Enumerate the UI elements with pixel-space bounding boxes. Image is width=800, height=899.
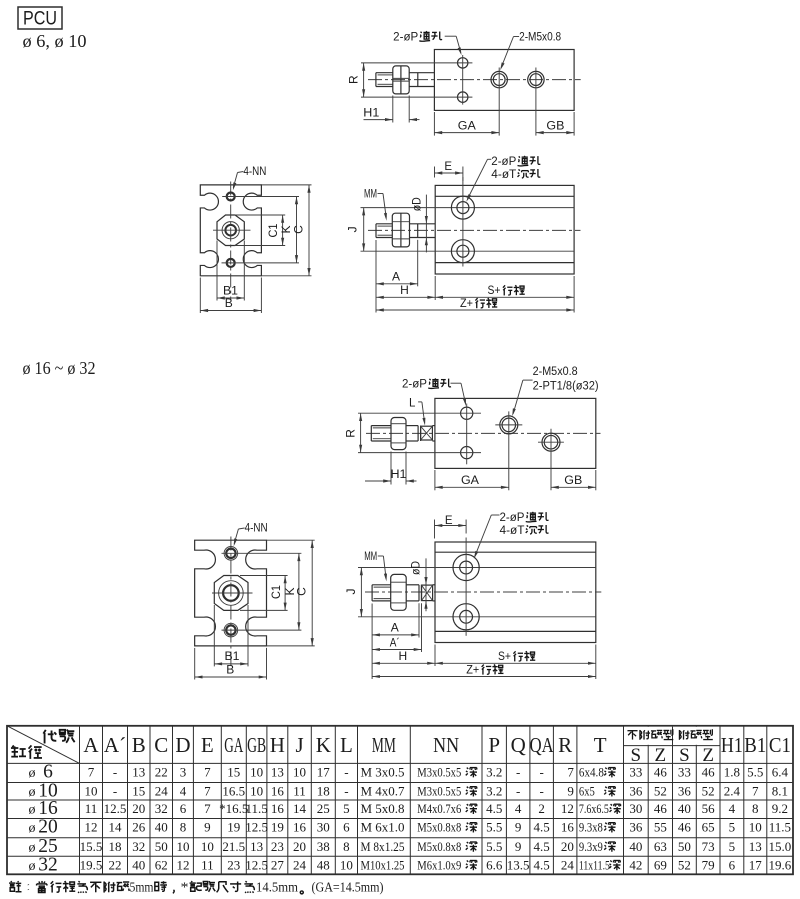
svg-text:22: 22: [109, 858, 122, 873]
svg-text:30: 30: [629, 801, 642, 816]
svg-text:50: 50: [678, 839, 691, 854]
dimension H: [434, 276, 436, 300]
svg-text:(GA=14.5mm): (GA=14.5mm): [312, 880, 384, 895]
svg-text:D: D: [175, 733, 190, 757]
svg-text:B1: B1: [225, 651, 240, 663]
svg-text:4.5: 4.5: [486, 801, 502, 816]
svg-text:M 5x0.8: M 5x0.8: [361, 801, 405, 816]
svg-text:5.5: 5.5: [486, 820, 502, 835]
svg-text:2.4: 2.4: [724, 784, 741, 799]
dimension B: [194, 648, 196, 680]
svg-text:9: 9: [515, 820, 522, 835]
svg-text:-: -: [113, 784, 117, 799]
dimension C: [267, 539, 315, 541]
svg-text:A´: A´: [104, 733, 126, 757]
cylinder body (side view small): [435, 185, 574, 274]
svg-text:ø: ø: [29, 766, 36, 781]
svg-text:20: 20: [38, 817, 58, 838]
svg-text:40: 40: [678, 801, 691, 816]
svg-text:2-øP: 2-øP: [393, 32, 418, 44]
svg-text:36: 36: [678, 784, 692, 799]
svg-text:36: 36: [629, 820, 643, 835]
svg-text:10: 10: [176, 839, 189, 854]
svg-text:11: 11: [85, 801, 98, 816]
svg-text:11: 11: [201, 858, 214, 873]
svg-text:19: 19: [271, 820, 284, 835]
svg-text:QA: QA: [530, 733, 555, 757]
counterbored mounting holes (side view large): [453, 554, 479, 580]
lower hole center line / J extension: [358, 616, 596, 618]
svg-text:9: 9: [204, 820, 211, 835]
svg-text:Q: Q: [511, 733, 526, 757]
svg-text:2-øP: 2-øP: [402, 379, 427, 391]
svg-text:M5x0.8x8: M5x0.8x8: [417, 839, 461, 854]
svg-text:6: 6: [729, 858, 736, 873]
svg-text:J: J: [295, 733, 303, 757]
svg-text:73: 73: [702, 839, 715, 854]
center line: [366, 432, 601, 434]
body groove line: [435, 262, 574, 264]
svg-text:3.2: 3.2: [486, 765, 502, 780]
svg-text:4.5: 4.5: [534, 839, 550, 854]
svg-text:5: 5: [729, 820, 736, 835]
svg-text:7: 7: [567, 765, 574, 780]
svg-text:5: 5: [343, 801, 350, 816]
counterbored mounting holes (side view small): [451, 196, 474, 219]
svg-text:M3x0.5x5: M3x0.5x5: [417, 765, 461, 780]
svg-text:7: 7: [88, 765, 95, 780]
dimension GB: [536, 132, 574, 134]
body plate outline with sensor notches (front view large): [195, 540, 267, 646]
dimension H: [434, 645, 436, 667]
dimension C1: [235, 214, 286, 216]
dimension H1: [390, 452, 392, 485]
svg-text:GB: GB: [546, 120, 564, 132]
svg-text:M 3x0.5: M 3x0.5: [361, 765, 405, 780]
svg-text:-: -: [539, 784, 543, 799]
svg-text:4.5: 4.5: [534, 820, 550, 835]
svg-text:14: 14: [293, 801, 307, 816]
svg-text:ø: ø: [29, 785, 36, 800]
svg-text:2: 2: [538, 801, 545, 816]
cylinder body (side view large): [435, 542, 596, 643]
table header diagonal cell: [7, 726, 80, 764]
svg-text:Z+: Z+: [466, 664, 479, 676]
rod outer circle: [222, 222, 239, 239]
svg-text:T: T: [594, 733, 607, 757]
svg-text:E: E: [444, 161, 452, 173]
svg-text:E: E: [201, 733, 214, 757]
svg-text:GA: GA: [461, 475, 479, 487]
staggered ports M5 / PT1/8: [500, 416, 518, 434]
svg-text:2-øP: 2-øP: [500, 512, 525, 524]
svg-text:11.5: 11.5: [245, 801, 267, 816]
svg-text:5mm: 5mm: [130, 880, 154, 895]
piston rod with nuts (top view small): [375, 73, 377, 87]
svg-text:11x11.5: 11x11.5: [579, 858, 610, 873]
svg-text:S: S: [631, 745, 642, 766]
svg-text:16: 16: [271, 801, 285, 816]
svg-text:M 4x0.7: M 4x0.7: [361, 784, 406, 799]
svg-text:22: 22: [155, 765, 168, 780]
svg-text:33: 33: [629, 765, 642, 780]
svg-text:7: 7: [204, 801, 211, 816]
svg-text:4-NN: 4-NN: [243, 166, 266, 178]
svg-text:10: 10: [250, 765, 263, 780]
svg-text:*: *: [181, 880, 189, 895]
svg-text:B: B: [225, 296, 233, 310]
body groove line: [435, 195, 574, 197]
svg-text:8: 8: [343, 839, 350, 854]
svg-text:8: 8: [180, 820, 187, 835]
svg-text:14.5mm: 14.5mm: [256, 880, 298, 895]
svg-text:13.5: 13.5: [507, 858, 530, 873]
dimension J: [360, 568, 362, 617]
svg-text:R: R: [343, 429, 357, 438]
svg-text:27: 27: [271, 858, 285, 873]
svg-text:3.2: 3.2: [486, 784, 502, 799]
svg-text:15: 15: [132, 784, 145, 799]
svg-text:24: 24: [293, 858, 307, 873]
rod thread circle: [225, 225, 236, 236]
cylinder body (top view small): [434, 50, 574, 111]
svg-text:52: 52: [654, 784, 667, 799]
dimension S+stroke: [573, 276, 575, 313]
body groove line: [435, 630, 596, 632]
svg-text:GB: GB: [247, 733, 266, 757]
svg-text:9: 9: [567, 784, 574, 799]
svg-text:48: 48: [317, 858, 330, 873]
svg-text:ø: ø: [29, 821, 36, 836]
svg-text:8.1: 8.1: [772, 784, 788, 799]
svg-text:ø: ø: [29, 841, 36, 856]
svg-text:S+: S+: [488, 285, 501, 297]
svg-text:36: 36: [629, 784, 643, 799]
svg-text:5.5: 5.5: [747, 765, 763, 780]
svg-text:63: 63: [654, 839, 667, 854]
svg-text:16.5: 16.5: [222, 784, 245, 799]
svg-text:GA: GA: [458, 120, 476, 132]
svg-text:H1: H1: [721, 733, 743, 757]
dimension B1: [216, 241, 218, 301]
footnote: [9, 881, 21, 892]
svg-text:19: 19: [227, 820, 240, 835]
table grid: [7, 726, 793, 875]
svg-text:Z+: Z+: [460, 298, 473, 310]
svg-text:A´: A´: [390, 637, 400, 649]
svg-text:C1: C1: [769, 733, 791, 757]
svg-text:MM: MM: [364, 189, 377, 201]
svg-text:M5x0.8x8: M5x0.8x8: [417, 820, 461, 835]
svg-text:-: -: [539, 765, 543, 780]
svg-text:P: P: [488, 733, 500, 757]
svg-text:13: 13: [271, 765, 284, 780]
svg-text:-: -: [113, 765, 117, 780]
svg-text:40: 40: [132, 858, 145, 873]
svg-text:MM: MM: [364, 551, 377, 563]
svg-text:H: H: [400, 283, 409, 297]
dimension E: [434, 520, 436, 539]
svg-text:L: L: [340, 733, 353, 757]
svg-text:5.5: 5.5: [486, 839, 502, 854]
dimension Z+stroke: [376, 309, 574, 311]
svg-text:20: 20: [293, 839, 306, 854]
svg-text:7: 7: [204, 765, 211, 780]
svg-text:NN: NN: [433, 733, 459, 757]
dimension R: [363, 63, 365, 97]
body plate outline with sensor notches (front view small): [200, 185, 261, 276]
svg-text:6x5: 6x5: [579, 784, 595, 799]
svg-text:13: 13: [132, 765, 145, 780]
svg-text:K: K: [316, 733, 331, 757]
svg-text:1.8: 1.8: [724, 765, 740, 780]
svg-text:38: 38: [317, 839, 330, 854]
svg-text:H1: H1: [363, 108, 379, 120]
svg-text:M 6x1.0: M 6x1.0: [361, 820, 405, 835]
svg-text:18: 18: [109, 839, 122, 854]
svg-text:12.5: 12.5: [245, 858, 268, 873]
2-øP through holes: [458, 58, 468, 68]
dimension A: [371, 604, 373, 680]
svg-text:*16.5: *16.5: [219, 801, 248, 816]
svg-text:10: 10: [250, 784, 263, 799]
svg-text:20: 20: [561, 839, 574, 854]
2-øP through holes: [461, 407, 473, 419]
svg-text:øD: øD: [411, 197, 423, 211]
svg-text:79: 79: [702, 858, 715, 873]
svg-text:42: 42: [629, 858, 642, 873]
svg-text:10: 10: [293, 765, 306, 780]
svg-text:46: 46: [654, 765, 668, 780]
svg-text:17: 17: [317, 765, 331, 780]
piston rod with nut and wrench-flat block (top view large): [370, 426, 372, 441]
svg-text:4-NN: 4-NN: [245, 522, 268, 534]
svg-text:9.3x9: 9.3x9: [579, 839, 603, 854]
svg-text:69: 69: [654, 858, 667, 873]
dimension H1: [392, 96, 394, 123]
svg-text:4-øT: 4-øT: [491, 169, 516, 181]
dimension K: [296, 197, 298, 263]
svg-text:6: 6: [43, 762, 53, 783]
dimension E: [434, 167, 436, 178]
svg-text:H1: H1: [391, 469, 407, 481]
dimension Z+stroke: [372, 676, 596, 678]
svg-text:55: 55: [654, 820, 667, 835]
svg-text:62: 62: [155, 858, 168, 873]
svg-text:13: 13: [749, 839, 762, 854]
svg-text:5: 5: [729, 839, 736, 854]
svg-text:L: L: [409, 398, 416, 410]
svg-text:ø: ø: [29, 803, 36, 818]
svg-text:C: C: [295, 587, 309, 596]
svg-text:2-M5x0.8: 2-M5x0.8: [533, 366, 578, 378]
svg-text:21.5: 21.5: [222, 839, 245, 854]
svg-text:6: 6: [343, 820, 350, 835]
svg-text:4: 4: [515, 801, 522, 816]
svg-text:C1: C1: [271, 585, 283, 599]
svg-text:4-øT: 4-øT: [500, 525, 525, 537]
center lines (front view large): [230, 537, 232, 667]
2-M5x0.8 ports: [491, 71, 507, 87]
svg-text:MM: MM: [372, 733, 396, 757]
svg-text:23: 23: [271, 839, 284, 854]
dimension GA: [434, 470, 436, 490]
rod outer circle: [219, 581, 244, 606]
svg-text:2-øP: 2-øP: [491, 156, 516, 168]
svg-text:32: 32: [38, 855, 58, 876]
PCU title box: [18, 7, 62, 29]
svg-text:40: 40: [155, 820, 168, 835]
svg-text:25: 25: [317, 801, 330, 816]
svg-text:7.6x6.5: 7.6x6.5: [579, 801, 609, 816]
svg-text:32: 32: [132, 839, 145, 854]
svg-text:24: 24: [155, 784, 169, 799]
svg-text:9.3x8: 9.3x8: [579, 820, 603, 835]
svg-text:R: R: [347, 75, 361, 84]
svg-text:12: 12: [561, 801, 574, 816]
svg-text:18: 18: [317, 784, 330, 799]
svg-text:46: 46: [654, 801, 668, 816]
dimension B1: [213, 605, 215, 666]
svg-text:GA: GA: [224, 733, 244, 757]
wrench flat square with X: [418, 585, 420, 601]
rod boss hexagon (front view small): [217, 215, 244, 246]
svg-text:øD: øD: [411, 561, 423, 575]
svg-text:ø: ø: [29, 859, 36, 874]
svg-text:19.6: 19.6: [769, 858, 792, 873]
dimension K: [298, 553, 300, 630]
lower hole center line / J extension: [361, 250, 575, 252]
rod boss hexagon (front view large): [214, 576, 248, 611]
svg-text:32: 32: [155, 801, 168, 816]
svg-text:-: -: [516, 765, 520, 780]
svg-text:7: 7: [752, 784, 759, 799]
dimension A&#180;: [421, 603, 423, 652]
svg-text:33: 33: [678, 765, 691, 780]
svg-text:ø 16 ~ ø 32: ø 16 ~ ø 32: [23, 358, 96, 378]
svg-text:15: 15: [227, 765, 240, 780]
svg-text:R: R: [558, 733, 572, 757]
svg-text:12.5: 12.5: [104, 801, 127, 816]
svg-text:9: 9: [515, 839, 522, 854]
svg-text:M4x0.7x6: M4x0.7x6: [417, 801, 461, 816]
svg-text:6: 6: [180, 801, 187, 816]
center line: [368, 79, 581, 81]
svg-text:16: 16: [293, 820, 307, 835]
svg-text:12: 12: [176, 858, 189, 873]
svg-text:-: -: [344, 784, 348, 799]
4-NN mounting holes (front view large): [224, 547, 238, 561]
dimension GB: [551, 486, 596, 488]
svg-text:40: 40: [629, 839, 642, 854]
svg-text:26: 26: [132, 820, 146, 835]
svg-text:46: 46: [702, 765, 716, 780]
svg-text:10: 10: [340, 858, 353, 873]
svg-text:3: 3: [180, 765, 187, 780]
svg-text:M6x1.0x9: M6x1.0x9: [417, 858, 461, 873]
svg-text:-: -: [516, 784, 520, 799]
svg-text:PCU: PCU: [23, 9, 57, 30]
svg-text:52: 52: [678, 858, 691, 873]
svg-text:24: 24: [561, 858, 575, 873]
svg-text:Z: Z: [655, 745, 667, 766]
svg-text:S: S: [679, 745, 690, 766]
cylinder body (top view large): [435, 398, 596, 468]
svg-text:20: 20: [132, 801, 145, 816]
4-NN mounting holes (front view small): [227, 193, 235, 201]
svg-text:12: 12: [85, 820, 98, 835]
dimension C1: [240, 575, 288, 577]
svg-text:56: 56: [702, 801, 716, 816]
svg-text:15.5: 15.5: [80, 839, 103, 854]
svg-text:A: A: [83, 733, 99, 757]
svg-text:50: 50: [155, 839, 168, 854]
dimension S+stroke: [595, 645, 597, 680]
svg-text:-: -: [344, 765, 348, 780]
svg-text:Z: Z: [702, 745, 714, 766]
svg-text:4.5: 4.5: [534, 858, 550, 873]
svg-text:10: 10: [749, 820, 762, 835]
svg-text:15.0: 15.0: [769, 839, 792, 854]
svg-text:B1: B1: [744, 733, 766, 757]
svg-text:GB: GB: [564, 475, 582, 487]
svg-text:C: C: [154, 733, 168, 757]
svg-text:17: 17: [749, 858, 763, 873]
center lines (front view small): [230, 182, 232, 301]
svg-text:11: 11: [293, 784, 306, 799]
svg-text:M3x0.5x5: M3x0.5x5: [417, 784, 461, 799]
svg-text:19.5: 19.5: [80, 858, 103, 873]
center line: [368, 229, 581, 231]
svg-text:30: 30: [317, 820, 330, 835]
svg-text:A: A: [392, 270, 400, 284]
dimension øD: [425, 558, 427, 611]
svg-text:11.5: 11.5: [769, 820, 791, 835]
svg-text:H: H: [398, 649, 407, 663]
svg-text:H: H: [270, 733, 285, 757]
svg-text:16: 16: [561, 820, 575, 835]
svg-text:C: C: [291, 225, 305, 234]
svg-text:J: J: [344, 589, 358, 595]
body groove line: [435, 551, 596, 553]
svg-text:46: 46: [678, 820, 692, 835]
svg-text:65: 65: [702, 820, 715, 835]
dimension C: [261, 184, 311, 186]
svg-text:10: 10: [201, 839, 214, 854]
svg-text:2-M5x0.8: 2-M5x0.8: [519, 32, 561, 44]
upper hole center line / J extension: [361, 207, 575, 209]
svg-text:7: 7: [204, 784, 211, 799]
svg-text:6.6: 6.6: [486, 858, 503, 873]
svg-text:6x4.8: 6x4.8: [579, 765, 604, 780]
piston rod MM thread with nuts (side view small): [375, 224, 377, 238]
svg-text:9.2: 9.2: [772, 801, 788, 816]
svg-text:52: 52: [702, 784, 715, 799]
center line: [365, 591, 601, 593]
dimension øD: [425, 195, 427, 253]
rod thread circle: [223, 585, 239, 601]
svg-text:13: 13: [250, 839, 263, 854]
wrench flat square with X: [417, 426, 419, 441]
svg-text:J: J: [346, 226, 360, 232]
svg-text:16: 16: [271, 784, 285, 799]
svg-text:4: 4: [729, 801, 736, 816]
dimension A: [375, 240, 377, 313]
svg-text:12.5: 12.5: [245, 820, 268, 835]
svg-text:M10x1.25: M10x1.25: [361, 858, 405, 873]
svg-text:B: B: [226, 663, 234, 677]
piston rod with nut and wrench-flat block (side view large): [371, 585, 373, 601]
